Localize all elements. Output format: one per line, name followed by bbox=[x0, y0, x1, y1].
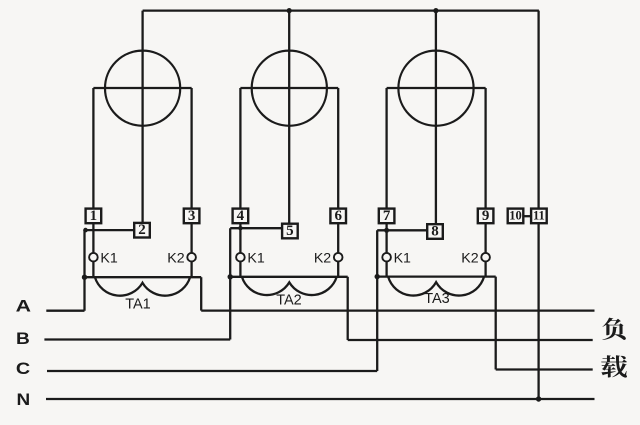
svg-text:K2: K2 bbox=[167, 250, 184, 266]
svg-text:5: 5 bbox=[286, 223, 294, 239]
svg-text:6: 6 bbox=[334, 208, 342, 224]
svg-text:C: C bbox=[16, 360, 30, 378]
svg-text:N: N bbox=[17, 391, 31, 409]
svg-text:TA2: TA2 bbox=[276, 293, 302, 309]
svg-text:K2: K2 bbox=[314, 250, 331, 266]
svg-text:3: 3 bbox=[188, 208, 196, 224]
svg-text:1: 1 bbox=[90, 208, 98, 224]
svg-text:K1: K1 bbox=[394, 250, 411, 266]
svg-text:4: 4 bbox=[237, 208, 245, 224]
svg-text:B: B bbox=[16, 330, 30, 348]
svg-text:2: 2 bbox=[138, 222, 146, 238]
svg-text:K1: K1 bbox=[100, 250, 117, 266]
svg-text:8: 8 bbox=[431, 223, 439, 239]
svg-text:11: 11 bbox=[533, 208, 545, 222]
svg-text:TA1: TA1 bbox=[125, 297, 151, 313]
svg-text:10: 10 bbox=[509, 208, 522, 222]
svg-text:9: 9 bbox=[482, 208, 490, 224]
svg-text:TA3: TA3 bbox=[424, 291, 450, 307]
svg-text:7: 7 bbox=[383, 208, 391, 224]
svg-text:K1: K1 bbox=[247, 250, 264, 266]
svg-text:K2: K2 bbox=[461, 250, 478, 266]
svg-text:A: A bbox=[16, 298, 32, 316]
